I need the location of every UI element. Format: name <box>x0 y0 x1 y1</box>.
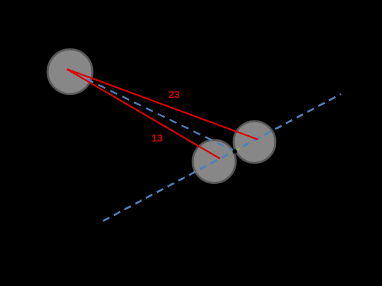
green dash at contact point <box>237 148 240 150</box>
ball 3 (upper-right of touching pair) <box>234 121 276 163</box>
short blue dashed line (aim line from ball 1 center to contact point) <box>67 70 235 152</box>
red segment 23 (from ball 1 center to ball 3 center area) <box>67 69 258 140</box>
ball 1 (cue ball, top-left) <box>48 49 93 94</box>
red segment 13 (from ball 1 center to ball 2 center area) <box>67 69 220 159</box>
ball 2 (lower-left of touching pair) <box>193 140 236 183</box>
contact point (black dot) <box>233 149 238 154</box>
svg-text:13: 13 <box>151 133 163 145</box>
svg-text:23: 23 <box>168 89 180 101</box>
long blue dashed line (line of centers through balls 2 and 3) <box>103 94 341 221</box>
